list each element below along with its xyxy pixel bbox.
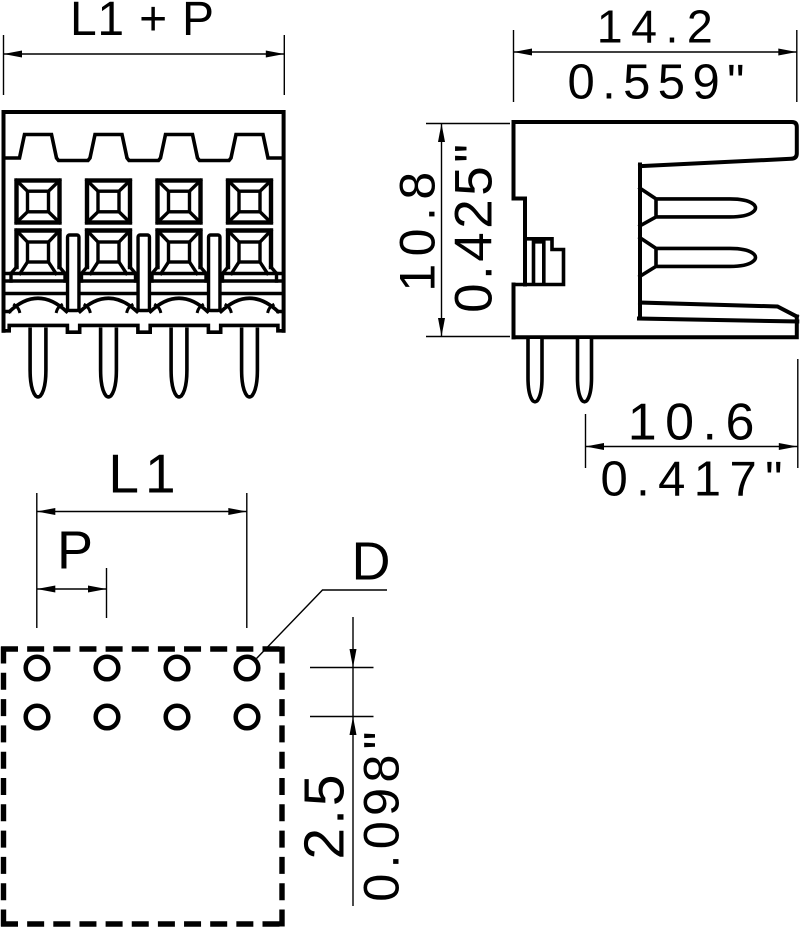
drill hole B3 [166,706,189,729]
drill hole A4 [236,657,259,680]
right lower edge and bottom edge [514,317,797,338]
svg-text:0.425": 0.425" [445,140,504,312]
shroud bottom arm underside [639,319,797,322]
svg-text:L1: L1 [108,443,181,505]
drill hole B2 [96,706,119,729]
arc under column 3 [151,298,208,311]
solder pin 4 (front) [242,328,258,397]
left edge lower [512,285,516,338]
contact square upper 1 [17,181,60,223]
arc under column 4 [221,298,278,311]
solder pin 1 (front) [30,328,46,397]
drill hole B4 [236,706,259,729]
svg-text:10.8: 10.8 [390,164,446,291]
side solder pin B [578,339,592,402]
side view outline: top edge, right edge, shroud inner top [514,122,797,166]
svg-text:D: D [352,532,391,592]
contact square upper 3 [158,181,201,223]
svg-text:0.098": 0.098" [353,726,410,902]
contact square lower 3 [152,231,206,282]
dimension L1 [37,443,247,629]
solder pin 3 (front) [171,328,187,397]
contact square lower 2 [82,231,136,282]
contact square lower 4 [223,231,277,282]
partition bar 2 [138,235,149,311]
dimension 10.8 / 0.425" [390,124,511,337]
dashed PCB outline [1,647,285,927]
collar plinth line [4,272,284,276]
arc under column 2 [80,298,137,311]
shroud bottom arm top [640,303,797,317]
dimension P [37,521,107,619]
svg-text:14.2: 14.2 [597,1,722,53]
male pin 2 (side) [640,238,756,277]
svg-text:0.559": 0.559" [567,56,751,110]
drill hole A2 [96,657,119,680]
contact square upper 2 [87,181,130,223]
partition bar 1 [68,235,79,311]
latch hook [514,239,564,285]
drill hole B1 [26,706,49,729]
solder pin 2 (front) [101,328,117,397]
dimension 14.2 / 0.559" [514,1,797,110]
front view castellated top profile [4,135,284,161]
partition bar 3 [209,235,220,311]
side solder pin A [528,339,542,402]
svg-text:L1 + P: L1 + P [70,0,215,46]
drill hole A3 [166,657,189,680]
front view outer body [4,112,284,331]
svg-text:P: P [57,521,93,581]
arc under column 1 [10,298,67,311]
svg-text:2.5: 2.5 [293,771,357,859]
scallop arcs [4,298,284,311]
contact square lower 1 [11,231,65,282]
contact square upper 4 [228,181,271,223]
shroud rear wall [638,165,642,319]
svg-text:10.6: 10.6 [628,394,763,452]
left edge upper with step [514,122,526,285]
dimension 2.5 / 0.098" [293,617,410,906]
dimension L1+P [4,0,285,95]
svg-text:0.417": 0.417" [600,453,790,507]
dimension 10.6 / 0.417" [586,359,798,507]
male pin 1 (side) [640,188,756,226]
drill hole A1 [26,657,49,680]
label D with leader [257,532,391,659]
bottom edge with feet and tabs [4,325,284,332]
collar band [4,281,284,294]
